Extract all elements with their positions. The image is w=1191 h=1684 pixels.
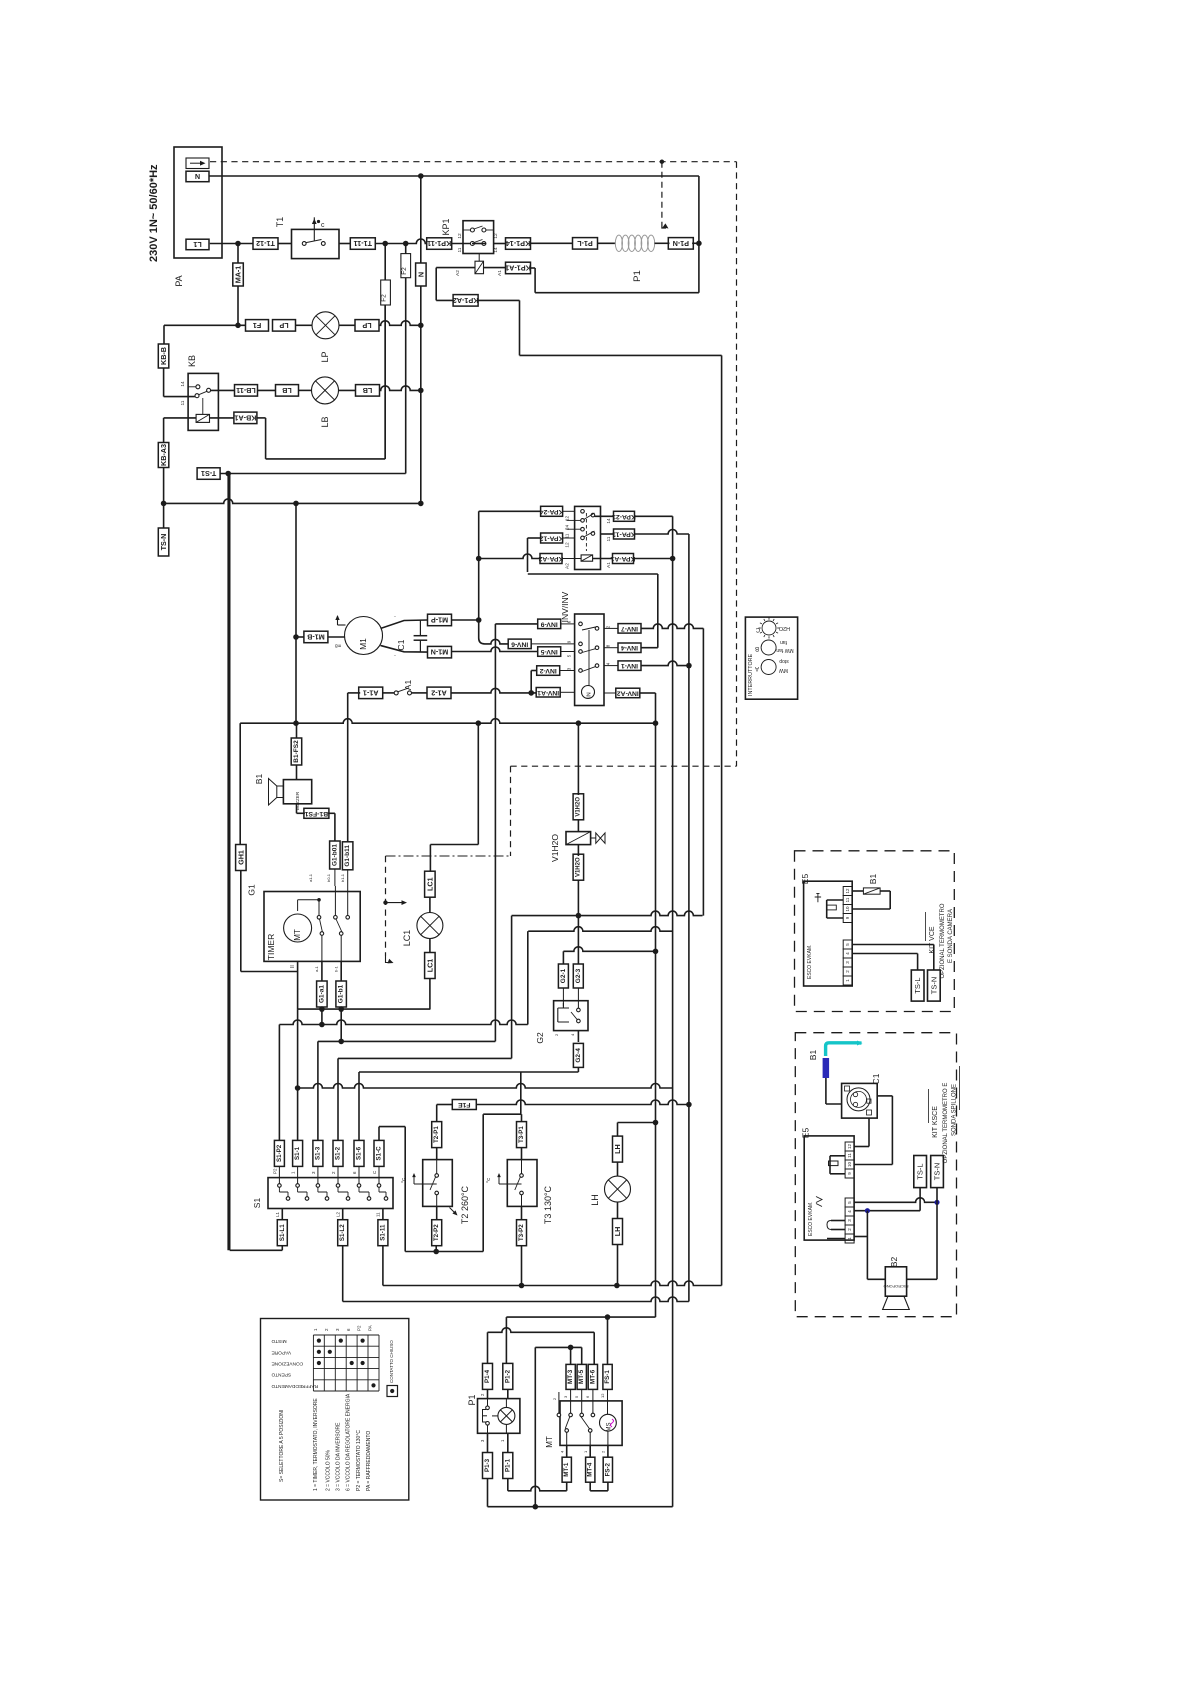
svg-text:SONDA SPILLONE: SONDA SPILLONE	[952, 1084, 958, 1136]
motor M1	[335, 615, 382, 655]
terminal P1-N	[668, 238, 693, 250]
svg-text:P1-1: P1-1	[504, 1458, 511, 1472]
wire M1-P riser	[478, 511, 480, 620]
terminal G1-b1	[336, 961, 347, 1007]
wire LH feed	[618, 1120, 659, 1136]
svg-text:10: 10	[847, 1162, 852, 1168]
wire G2-1 row	[563, 947, 658, 965]
wire KPA-A1 to bus	[634, 556, 676, 562]
svg-text:P1-3: P1-3	[484, 1458, 491, 1472]
terminal S1-2	[333, 1140, 343, 1166]
wire LP to lamp	[296, 324, 312, 326]
wire S1-C to T2-P2	[379, 1114, 522, 1254]
terminal V1H2O	[573, 845, 584, 881]
svg-text:2 = VCCOLO 50%: 2 = VCCOLO 50%	[326, 1449, 332, 1491]
board E5 jumpers	[816, 1156, 845, 1239]
svg-text:11: 11	[376, 1212, 381, 1217]
terminal MT-1	[559, 1432, 571, 1482]
wire LB to N rail	[380, 386, 424, 393]
svg-text:11: 11	[180, 400, 186, 405]
wire INV-1 to bus	[641, 661, 692, 668]
wire S1-L2 run	[343, 1246, 689, 1302]
wire T3-P1 up	[520, 1072, 523, 1122]
svg-text:1 = TIMER, TERMOSTATO, INVERSO: 1 = TIMER, TERMOSTATO, INVERSORE	[313, 1398, 319, 1491]
svg-text:B1: B1	[868, 874, 878, 885]
KIT KSCE caption	[929, 1066, 960, 1163]
terminal KPA-12	[540, 533, 564, 543]
svg-text:G1-a1: G1-a1	[318, 985, 325, 1003]
svg-text:KPA-11: KPA-11	[612, 531, 636, 538]
wire G1-b01 stub	[334, 869, 336, 886]
wire M1-P junction	[452, 617, 482, 623]
svg-text:E SONDA CAMERA: E SONDA CAMERA	[948, 909, 954, 963]
terminal LP	[273, 320, 296, 332]
wire row S1-1	[295, 1009, 673, 1140]
svg-text:fan: fan	[780, 639, 787, 645]
svg-text:MT-4: MT-4	[587, 1462, 594, 1477]
svg-text:MICROFONO: MICROFONO	[884, 1284, 909, 1289]
svg-text:°c: °c	[486, 1178, 492, 1183]
wire valve to junction	[576, 880, 582, 918]
svg-text:TS-N: TS-N	[929, 977, 938, 995]
probe B1	[852, 874, 890, 909]
wire neutral row	[164, 499, 424, 506]
svg-text:B1: B1	[808, 1050, 818, 1061]
terminal T2-P1	[432, 1122, 442, 1148]
terminal A1-1	[359, 687, 383, 699]
svg-text:LB-11: LB-11	[236, 386, 256, 395]
svg-text:B1-FS1: B1-FS1	[304, 810, 328, 817]
terminal S1-L2	[335, 1209, 347, 1246]
probe G2	[535, 988, 588, 1044]
terminal MT-4	[583, 1432, 595, 1482]
board E5 jumpers	[815, 893, 844, 918]
svg-text:INV-2: INV-2	[539, 667, 556, 674]
svg-text:INV-7: INV-7	[621, 625, 638, 632]
svg-text:LH: LH	[613, 1227, 622, 1237]
svg-text:S1-3: S1-3	[314, 1146, 321, 1160]
svg-text:MT: MT	[545, 1436, 554, 1448]
wire KPA 21 out	[595, 515, 614, 517]
terminal MT-3	[566, 1364, 575, 1389]
svg-text:LH: LH	[613, 1144, 622, 1154]
wire KB contact to LB-11	[210, 389, 234, 391]
wire row S1-P2	[279, 1009, 527, 1140]
svg-text:12: 12	[847, 1144, 852, 1150]
thermostat T1	[275, 217, 339, 259]
wire LB to lamp	[258, 389, 312, 391]
dashed actuator link	[660, 160, 669, 229]
terminal S1-1	[293, 1140, 303, 1166]
wire INV-2 branch	[531, 671, 536, 693]
terminal N	[416, 176, 427, 503]
svg-text:B2: B2	[889, 1257, 899, 1268]
terminal INV-5	[538, 647, 561, 657]
svg-text:PA: PA	[174, 275, 184, 286]
panel INTERRUTTORE	[745, 617, 797, 699]
svg-text:KP1: KP1	[441, 218, 451, 235]
wire right boundary	[0, 0, 1, 1]
svg-text:LP: LP	[320, 351, 330, 362]
wire M1 to M1-N	[381, 646, 428, 659]
terminal T3-P2	[517, 1206, 527, 1285]
svg-text:KPA-21: KPA-21	[612, 513, 636, 520]
wire LP row left	[164, 325, 245, 344]
dashed door link	[383, 856, 407, 963]
terminal LP	[355, 320, 379, 332]
svg-text:ESCO EVKAM.: ESCO EVKAM.	[807, 945, 813, 979]
thermostat T2	[401, 1148, 470, 1224]
connector P1	[478, 1389, 520, 1442]
dashed enclosure bottom edge	[511, 765, 737, 767]
capacitor C1	[396, 620, 427, 652]
terminal INV-4	[618, 643, 641, 653]
wire M1-N to INV-5	[452, 647, 538, 651]
svg-text:M1-P: M1-P	[431, 616, 448, 625]
svg-text:M1: M1	[358, 638, 368, 650]
terminal KB-A1	[234, 412, 257, 424]
wire KP1 coil A2	[436, 268, 475, 301]
wire KPA A1 out	[593, 558, 613, 560]
wire term4 to TS-L	[854, 1188, 920, 1214]
wire LP to N rail	[379, 321, 424, 328]
svg-text:KPA-12: KPA-12	[540, 535, 564, 542]
wire lamp to LB	[339, 389, 356, 391]
wire P1-1 run	[508, 1479, 567, 1491]
wire INV-1 stub	[604, 665, 618, 667]
terminal P1-2	[503, 1363, 513, 1389]
svg-text:230V 1N~ 50/60*Hz: 230V 1N~ 50/60*Hz	[148, 164, 160, 262]
terminal S1-C	[374, 1140, 384, 1166]
svg-text:A1: A1	[497, 270, 503, 276]
wire MS stubs	[607, 1414, 609, 1445]
svg-text:LB: LB	[282, 386, 292, 395]
terminal KP1-A2	[453, 295, 479, 307]
timer motor MT	[284, 914, 312, 942]
svg-text:12: 12	[565, 542, 571, 548]
wire KP1-A1 loop	[530, 243, 699, 293]
wire KPA 11 out	[601, 533, 614, 535]
wire to P1-L	[530, 242, 573, 244]
wire INV-A1 stub	[560, 691, 574, 693]
svg-text:CONVEZIONE: CONVEZIONE	[272, 1361, 304, 1367]
svg-text:LC1: LC1	[425, 959, 434, 973]
terminal V1H2O	[573, 794, 584, 820]
svg-text:MISTO: MISTO	[271, 1338, 286, 1344]
terminal KP1-11	[427, 238, 452, 250]
wire row G1-b1/INV-9	[318, 1009, 496, 1140]
svg-text:V1H2O: V1H2O	[550, 834, 560, 862]
svg-text:S1: S1	[252, 1198, 262, 1209]
timer G1	[247, 884, 361, 961]
svg-text:VAPORE: VAPORE	[272, 1349, 292, 1355]
terminal S1-6	[354, 1140, 364, 1166]
wire LH to row	[617, 1245, 619, 1286]
wire T-S1 row	[220, 458, 406, 476]
wire KPA-22 stub	[563, 510, 575, 512]
svg-text:KPA-A2: KPA-A2	[538, 555, 563, 562]
wire probe to C1	[826, 1078, 842, 1104]
svg-text:H2O: H2O	[778, 625, 790, 631]
svg-text:12: 12	[845, 888, 850, 894]
svg-text:S1-P2: S1-P2	[276, 1144, 283, 1162]
svg-text:S1-2: S1-2	[335, 1146, 342, 1160]
svg-text:L1: L1	[275, 1211, 280, 1217]
svg-text:V1H2O: V1H2O	[575, 857, 581, 877]
svg-text:IN: IN	[587, 692, 593, 698]
svg-text:F1: F1	[253, 321, 261, 330]
lamp P1	[498, 1399, 515, 1434]
lamp LP	[312, 312, 339, 363]
svg-text:°c: °c	[401, 1178, 407, 1183]
terminal LB-11	[235, 385, 258, 397]
svg-text:6 = VCCOLO DA REGOLATORE ENERG: 6 = VCCOLO DA REGOLATORE ENERGIA	[346, 1393, 352, 1491]
svg-text:A: A	[755, 665, 759, 671]
terminal T1-12	[253, 238, 278, 250]
wire L1 drop	[237, 244, 239, 264]
svg-text:PA: PA	[368, 1325, 373, 1331]
svg-text:P1: P1	[632, 270, 643, 282]
wire main bus	[240, 719, 658, 726]
relay KPA coil	[581, 555, 593, 561]
svg-text:LC1: LC1	[402, 930, 412, 947]
fuse F1	[246, 320, 269, 332]
terminal T-S1	[197, 468, 220, 480]
wire bus left drop	[239, 723, 241, 844]
terminal G1-b11	[342, 842, 353, 870]
svg-text:OPZIONAL TERMOMETRO E: OPZIONAL TERMOMETRO E	[943, 1083, 949, 1164]
svg-text:LP: LP	[279, 321, 288, 330]
wire P1-N to N rail	[692, 176, 702, 246]
terminal G2-4	[573, 1031, 583, 1068]
KIT VCE caption	[926, 903, 955, 978]
terminal LH	[613, 1202, 623, 1244]
wire row S1-3/F1E	[437, 1104, 453, 1106]
svg-text:INV-5: INV-5	[540, 648, 557, 655]
dashed enclosure left drop	[510, 766, 512, 856]
svg-text:T2 260°C: T2 260°C	[460, 1185, 470, 1224]
svg-text:KB-A3: KB-A3	[159, 444, 168, 466]
wire MT-1 down	[566, 1482, 568, 1491]
svg-text:b-1: b-1	[334, 965, 339, 972]
wire row 1332	[488, 1328, 595, 1365]
svg-text:P2 = TERMOSTATO 130°C: P2 = TERMOSTATO 130°C	[356, 1430, 362, 1491]
terminal P1-4	[467, 1363, 493, 1405]
svg-text:G2: G2	[535, 1032, 545, 1044]
svg-text:TIMER: TIMER	[266, 934, 276, 960]
svg-text:S= SELETTORE A 5 POSIZIONI: S= SELETTORE A 5 POSIZIONI	[279, 1410, 285, 1482]
wire T2-P1 up	[436, 1105, 438, 1122]
terminal KP1-14	[506, 238, 531, 250]
svg-text:B1: B1	[254, 774, 264, 785]
wire KB-A3 down	[161, 468, 167, 507]
wire term5 to TS-N	[852, 945, 934, 971]
wire G2-4 to S1-6 row	[359, 1068, 578, 1072]
terminal B1-FS1	[297, 804, 329, 819]
PA terminal N	[186, 171, 209, 182]
svg-text:c: c	[321, 222, 325, 229]
wire C1 to term12	[855, 1096, 893, 1165]
switch INV	[560, 591, 611, 705]
svg-text:a1-1: a1-1	[308, 873, 313, 882]
svg-text:LB: LB	[363, 386, 373, 395]
wire M1 to M1-P	[381, 615, 428, 629]
wire S1-6 riser	[358, 1072, 360, 1140]
svg-text:G1-b01: G1-b01	[331, 844, 338, 866]
wire TS-N to B2	[907, 1202, 937, 1279]
microphone B2	[883, 1257, 910, 1310]
svg-text:E5: E5	[800, 874, 810, 885]
lamp LC1	[402, 897, 443, 946]
svg-text:MT-5: MT-5	[578, 1369, 585, 1384]
svg-text:P2: P2	[357, 1325, 362, 1331]
wire P1-L to heater	[597, 242, 616, 244]
terminal TS-L	[914, 1156, 927, 1188]
svg-text:TS-L: TS-L	[913, 977, 922, 993]
terminal TS-N	[931, 1156, 944, 1188]
svg-text:LP: LP	[362, 321, 371, 330]
svg-text:A1: A1	[403, 680, 413, 691]
svg-text:S1-L1: S1-L1	[279, 1224, 286, 1241]
terminal KPA-A1	[610, 554, 635, 564]
terminal S1-11	[376, 1209, 388, 1246]
svg-text:24: 24	[565, 525, 571, 531]
wire A1 to G1-b11	[347, 693, 349, 842]
relay KP1 coil	[475, 254, 484, 274]
svg-text:MT: MT	[293, 929, 302, 941]
terminal T2-P2	[432, 1206, 442, 1251]
svg-text:S1-1: S1-1	[294, 1146, 301, 1160]
svg-text:OPZIONAL TERMOMETRO: OPZIONAL TERMOMETRO	[940, 903, 946, 978]
PA arrow terminal	[186, 158, 209, 169]
svg-text:12: 12	[600, 1393, 605, 1398]
terminal P1-3	[483, 1433, 493, 1478]
svg-text:G1: G1	[247, 884, 257, 896]
svg-text:L1: L1	[193, 240, 201, 249]
svg-text:GH1: GH1	[236, 850, 245, 865]
svg-text:A1-1: A1-1	[363, 688, 379, 697]
svg-text:A2: A2	[565, 563, 571, 569]
svg-text:11: 11	[565, 533, 571, 538]
svg-text:T3 130°C: T3 130°C	[543, 1185, 553, 1224]
svg-text:a-1: a-1	[314, 965, 319, 972]
svg-text:M1-N: M1-N	[431, 648, 449, 657]
svg-text:N: N	[416, 272, 425, 277]
wire row 931	[528, 927, 672, 932]
wire row 915	[512, 911, 703, 916]
wire row 1317	[506, 1123, 655, 1364]
thermostat T3	[486, 1148, 553, 1224]
wire G1-b11 stub	[347, 870, 349, 886]
wire KP1-A2 run	[478, 300, 722, 355]
wire KPA-12 to INV-4	[528, 574, 658, 648]
svg-text:FS-2: FS-2	[604, 1462, 611, 1476]
svg-text:PA = RAFFREDDAMENTO: PA = RAFFREDDAMENTO	[366, 1431, 372, 1491]
fuse F2	[381, 244, 391, 459]
svg-text:FS-1: FS-1	[604, 1370, 611, 1384]
svg-text:T-S1: T-S1	[201, 469, 216, 478]
wire heater to P1-N	[655, 242, 670, 244]
svg-text:TS-L: TS-L	[916, 1163, 925, 1179]
wire timer output row	[298, 1006, 431, 1012]
svg-text:V1H2O: V1H2O	[575, 797, 581, 817]
svg-text:11: 11	[847, 1153, 852, 1158]
svg-text:B1-FS2: B1-FS2	[293, 740, 300, 763]
wire C1 to term10	[855, 1118, 870, 1146]
svg-text:KB-B: KB-B	[159, 347, 168, 365]
wire term1 to B2	[854, 1211, 885, 1280]
wire T-S1 column	[227, 474, 229, 1251]
terminal KPA-21	[612, 511, 636, 521]
svg-text:KPA-24: KPA-24	[540, 508, 564, 515]
svg-text:G2-4: G2-4	[575, 1048, 582, 1063]
svg-text:P1-2: P1-2	[504, 1369, 511, 1383]
svg-text:ESCO EVKAM.: ESCO EVKAM.	[808, 1202, 814, 1236]
svg-text:MT-1: MT-1	[563, 1462, 570, 1477]
terminal TS-N	[158, 503, 169, 556]
svg-text:b0-1: b0-1	[326, 873, 331, 882]
svg-text:N: N	[195, 172, 200, 181]
svg-text:C1: C1	[871, 1073, 881, 1084]
svg-text:3 = VCCOLO DA INVERSORE: 3 = VCCOLO DA INVERSORE	[336, 1422, 342, 1491]
wire GH1 to timer	[241, 871, 298, 972]
svg-text:P1-L: P1-L	[577, 239, 593, 248]
switch A1	[348, 680, 413, 695]
wire row 1347	[535, 1345, 581, 1507]
wire KP1 coil A1	[484, 268, 507, 276]
wire INV-4 link	[641, 647, 658, 649]
wire F1E to bus	[476, 1100, 691, 1107]
wire 511 riser	[511, 916, 513, 1059]
svg-text:INV-1: INV-1	[621, 662, 638, 669]
terminal KPA-11	[612, 529, 636, 539]
svg-text:KIT KSCE: KIT KSCE	[932, 1106, 939, 1138]
svg-text:INV/INV: INV/INV	[560, 591, 570, 622]
svg-text:G2-3: G2-3	[575, 968, 582, 983]
wire P1-3 down	[487, 1479, 489, 1507]
svg-text:M1-B: M1-B	[307, 633, 325, 642]
wire KB-A1 to F2	[257, 305, 385, 459]
terminal INV-A2	[616, 688, 640, 698]
svg-text:KIT VCE: KIT VCE	[929, 926, 936, 953]
motor unit MT	[545, 1389, 622, 1447]
wire T1 to T1-11	[339, 243, 351, 245]
terminal G1-b01	[330, 841, 341, 869]
svg-text:P1: P1	[467, 1394, 477, 1405]
terminal P1-L	[573, 238, 598, 250]
terminal KPA-A2	[538, 554, 563, 564]
wire FS-1 drop	[607, 1317, 609, 1364]
svg-text:INV-4: INV-4	[621, 644, 638, 651]
terminal P1-1	[503, 1433, 513, 1478]
svg-text:MT-3: MT-3	[567, 1369, 574, 1384]
wire INV-2 stub	[560, 670, 575, 672]
svg-text:LB: LB	[320, 416, 330, 427]
svg-text:MT-6: MT-6	[589, 1369, 596, 1384]
wire B1-FS1 to G1-b01	[328, 813, 335, 841]
svg-text:INV-6: INV-6	[511, 640, 528, 647]
terminal G2-3	[573, 916, 583, 988]
terminal TS-L	[911, 970, 924, 1001]
wire A1-2 to INV-A1	[451, 688, 536, 695]
motor IN	[582, 686, 595, 699]
terminal LC1	[425, 871, 436, 897]
terminal INV-9	[538, 619, 561, 629]
svg-text:11: 11	[845, 897, 850, 902]
wire KB coil to KB-A1	[210, 417, 235, 419]
terminal LH	[613, 1136, 623, 1162]
svg-text:KPA-A1: KPA-A1	[610, 555, 635, 562]
